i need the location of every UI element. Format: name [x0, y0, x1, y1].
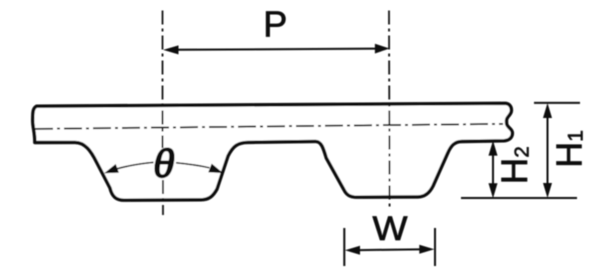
- svg-text:W: W: [373, 210, 408, 248]
- belt cross-section outline: [33, 103, 513, 200]
- dimension line P: [176, 49, 377, 50]
- arrowhead P right: [375, 44, 390, 54]
- centerline tooth 1 lower segment (dash-dot): [162, 180, 164, 215]
- arrowhead theta left: [104, 164, 119, 173]
- svg-text:P: P: [263, 4, 287, 45]
- horizontal pitch-line (dash-dot): [35, 124, 503, 129]
- dimension line H2: [492, 145, 494, 194]
- angle arc right (theta): [176, 163, 210, 168]
- angle arc left (theta): [117, 162, 154, 169]
- arrowhead H2 bottom: [489, 183, 498, 198]
- centerline tooth 2 (dash-dot): [388, 11, 391, 211]
- arrowhead W left: [345, 246, 360, 255]
- centerline tooth 1 upper segment (dash-dot): [162, 11, 164, 149]
- dimension line H1: [547, 108, 549, 193]
- arrowhead theta right: [208, 164, 223, 173]
- svg-text:θ: θ: [152, 140, 175, 187]
- arrowhead H1 bottom: [543, 183, 552, 198]
- extension line W right: [434, 228, 436, 266]
- arrowhead W right: [419, 245, 434, 254]
- extension line top right (belt top level): [534, 102, 580, 104]
- extension line bottom right (tooth bottom level): [461, 197, 577, 199]
- dimension line W: [352, 249, 428, 250]
- arrowhead H2 top: [489, 141, 498, 156]
- arrowhead P left: [163, 45, 178, 54]
- extension line W left: [343, 228, 345, 266]
- arrowhead H1 top: [543, 103, 552, 118]
